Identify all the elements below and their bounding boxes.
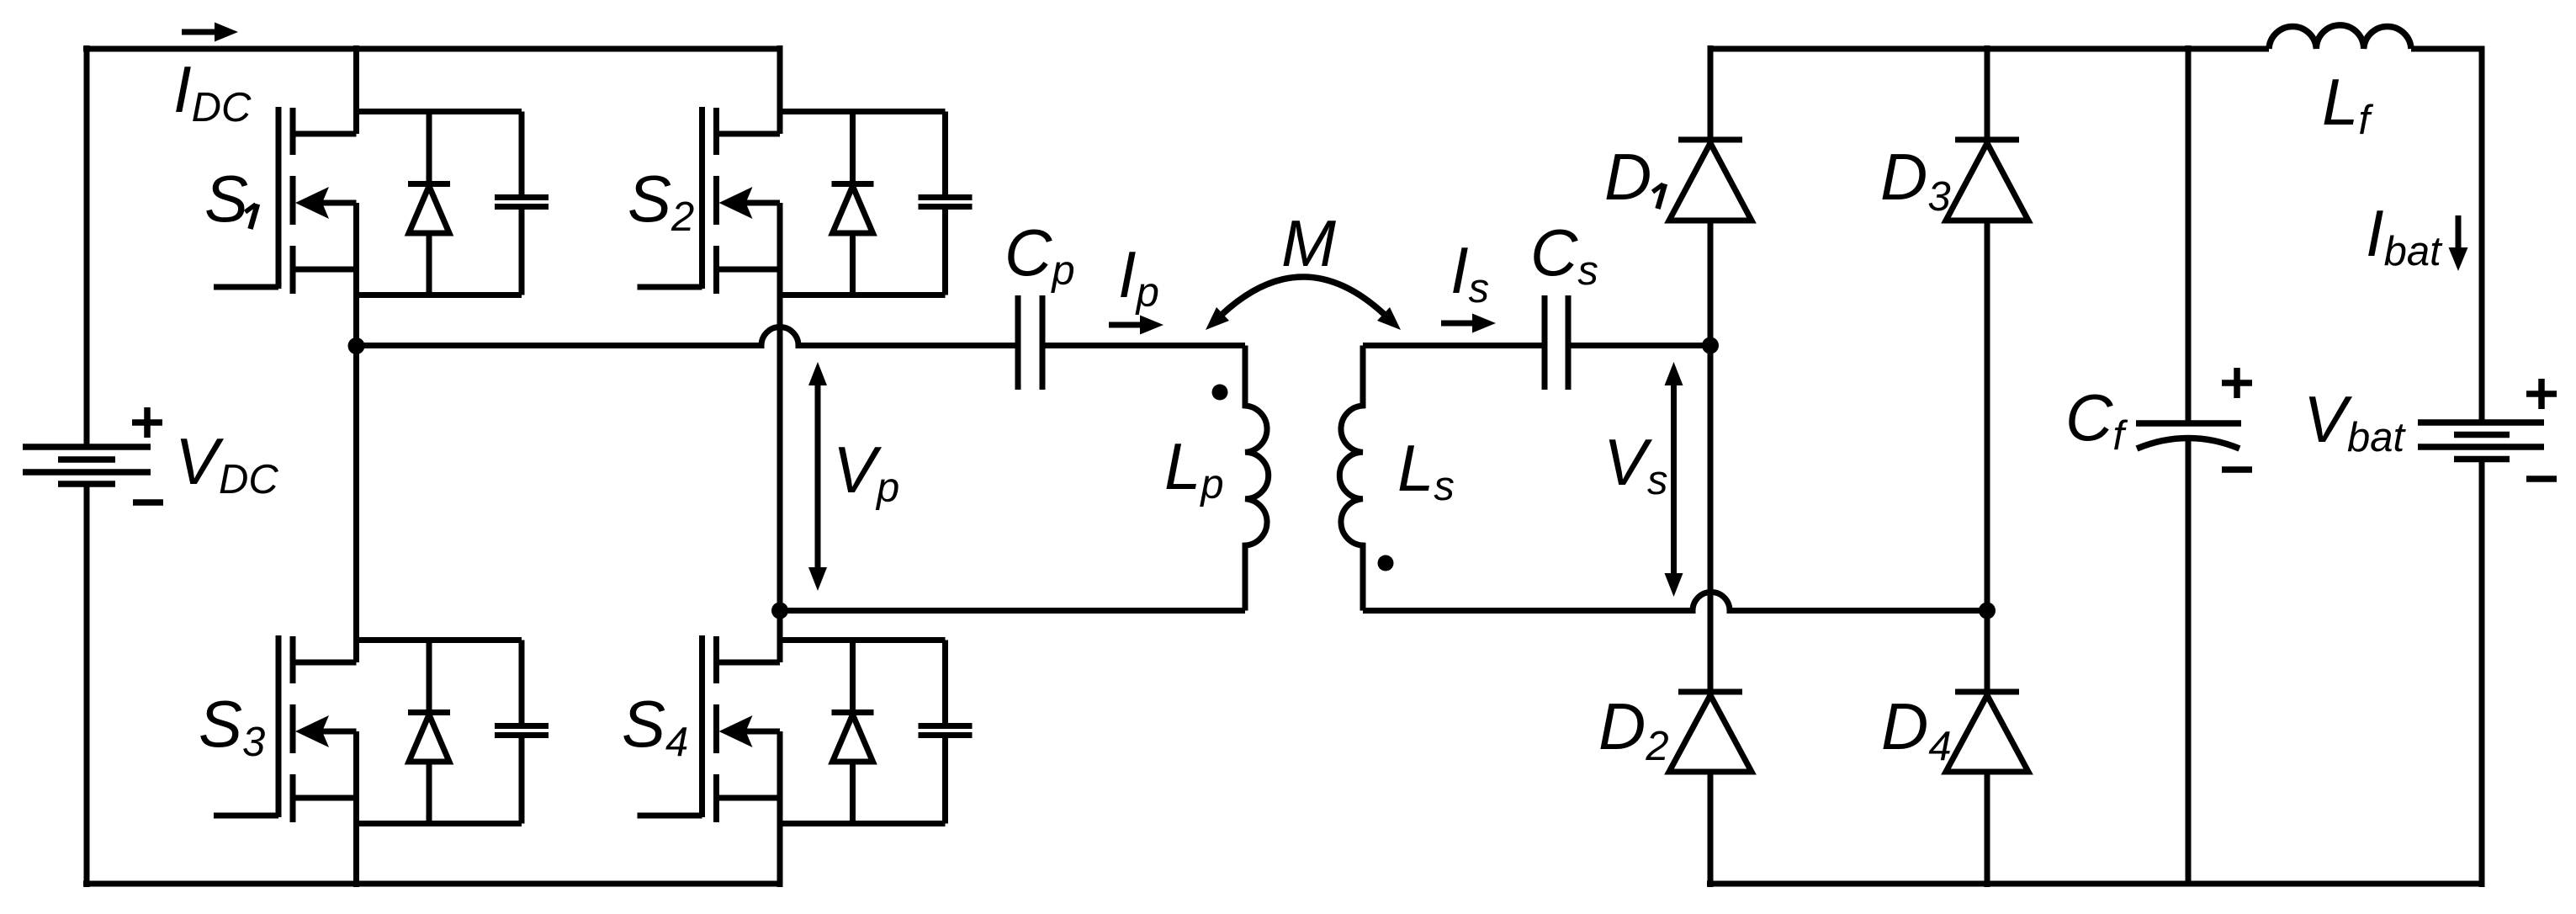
svg-text:IDC: IDC — [173, 52, 252, 130]
wire S3 snubber top link — [357, 637, 522, 643]
wire Cp to Lp — [1046, 343, 1246, 348]
plus sign VDC — [132, 407, 162, 438]
wire bottom rail (DC bus -) — [83, 881, 780, 887]
svg-text:S: S — [204, 162, 248, 236]
transistor S2 (MOSFET switch) — [638, 107, 781, 294]
wire S2 source bus — [777, 203, 783, 614]
arrow Ip current direction — [1109, 316, 1163, 335]
capacitor Cf (polarized) — [2136, 423, 2241, 449]
wire rectifier bottom rail — [1707, 881, 2482, 887]
svg-text:Vbat: Vbat — [2303, 382, 2407, 460]
wire S3 source bus — [353, 731, 359, 887]
svg-text:VDC: VDC — [175, 424, 278, 502]
wire D1-D2 branch link — [1708, 343, 1714, 692]
svg-text:Ls: Ls — [1397, 431, 1455, 509]
svg-text:D2: D2 — [1598, 689, 1669, 769]
inductor Lf (filter) — [2269, 25, 2411, 49]
wire battery - to bottom rail — [2479, 460, 2485, 888]
wire primary bottom: node B to Lp — [780, 608, 1245, 614]
arrow Vp voltage (double headed) — [808, 362, 827, 591]
wire S4 snubber top link — [780, 637, 946, 643]
svg-text:S2: S2 — [628, 162, 694, 240]
plus sign Vbat — [2526, 379, 2557, 409]
wire S1 snubber top link — [357, 109, 522, 114]
svg-text:Ip: Ip — [1118, 237, 1159, 316]
snubber capacitor of S4 — [919, 640, 973, 824]
wire S1 snubber bottom link — [357, 292, 522, 298]
wire S4 drain to rail — [777, 607, 783, 662]
transistor S1 (MOSFET switch) — [214, 107, 357, 294]
svg-text:Vp: Vp — [833, 433, 899, 511]
wire secondary top: Ls to Cs — [1363, 343, 1542, 348]
snubber capacitor of S2 — [919, 112, 973, 295]
arrow Vs voltage (double headed) — [1665, 362, 1683, 597]
minus sign Cf — [2222, 466, 2252, 473]
arrow IDC current direction — [182, 23, 238, 42]
svg-text:M: M — [1281, 206, 1336, 280]
svg-text:Cf: Cf — [2065, 380, 2128, 459]
wire D3-D4 branch link — [1985, 607, 1990, 692]
wire Cs to node C — [1572, 343, 1711, 348]
wire primary top: node A to Cp with crossover hop — [357, 327, 1015, 346]
node B: S2-S4 midpoint junction — [771, 603, 788, 619]
minus sign VDC — [133, 499, 163, 506]
svg-text:S4: S4 — [622, 687, 688, 765]
wire S2 snubber bottom link — [780, 292, 946, 298]
svg-text:Cp: Cp — [1004, 215, 1075, 294]
battery VDC — [23, 447, 151, 484]
wire S1 source bus — [353, 203, 359, 349]
inductor Lp (primary coil) — [1245, 346, 1269, 611]
wire secondary bottom: Ls to node D with crossover hop — [1363, 593, 1987, 611]
arrow Ibat current direction — [2449, 215, 2468, 271]
polarity dot Ls — [1378, 555, 1394, 571]
wire Cf branch upper — [2186, 45, 2192, 423]
wire S1 drain to rail — [353, 45, 359, 134]
mutual inductance coupling arrow M — [1206, 277, 1401, 330]
node A: S1-S3 midpoint junction — [348, 337, 365, 354]
body diode of S3 — [408, 640, 450, 824]
wire S4 snubber bottom link — [780, 821, 946, 826]
plus sign Cf — [2222, 368, 2252, 398]
wire S4 source bus — [777, 731, 783, 887]
svg-text:Lf: Lf — [2322, 65, 2373, 143]
wire S3 drain to rail — [353, 343, 359, 662]
node D: secondary return to D3-D4 junction — [1979, 603, 1996, 619]
svg-text:S3: S3 — [199, 687, 265, 765]
wire left rail upper (VDC + to top rail) — [84, 45, 90, 447]
snubber capacitor of S3 — [495, 640, 549, 824]
diode D3 — [1946, 45, 2028, 614]
svg-text:Cs: Cs — [1530, 215, 1598, 294]
svg-text:Is: Is — [1450, 233, 1489, 311]
polarity dot Lp — [1212, 385, 1228, 401]
arrow Is current direction — [1441, 314, 1496, 333]
diode D2 — [1669, 691, 1752, 887]
transistor S4 (MOSFET switch) — [638, 635, 781, 822]
svg-text:D: D — [1604, 140, 1651, 214]
body diode of S4 — [832, 640, 874, 824]
wire S3 snubber bottom link — [357, 821, 522, 826]
battery Vbat — [2418, 422, 2544, 460]
minus sign Vbat — [2526, 476, 2557, 482]
svg-text:D4: D4 — [1881, 689, 1952, 769]
snubber capacitor of S1 — [495, 112, 549, 295]
wire Cf branch lower — [2186, 437, 2192, 884]
diode D4 — [1946, 691, 2028, 887]
wire S2 drain to rail — [777, 45, 783, 134]
transistor S3 (MOSFET switch) — [214, 635, 357, 822]
diode D1 — [1669, 45, 1752, 349]
wire top rail (DC bus +) — [83, 46, 780, 52]
svg-text:Ibat: Ibat — [2366, 196, 2443, 274]
wire rectifier top rail — [1710, 46, 2269, 52]
wire Lf to battery + (top right corner) — [2411, 49, 2482, 423]
inductor Ls (secondary coil) — [1339, 346, 1363, 611]
wire S2 snubber top link — [780, 109, 946, 114]
svg-text:D3: D3 — [1880, 140, 1951, 220]
capacitor Cp — [1018, 295, 1042, 390]
capacitor Cs — [1545, 295, 1568, 390]
wire left rail lower (VDC - to bottom rail) — [84, 484, 90, 887]
node C: Cs to D1-D2 junction — [1702, 337, 1719, 354]
svg-text:Lp: Lp — [1164, 429, 1224, 507]
body diode of S2 — [832, 112, 874, 295]
svg-text:Vs: Vs — [1603, 425, 1668, 503]
body diode of S1 — [408, 112, 450, 295]
